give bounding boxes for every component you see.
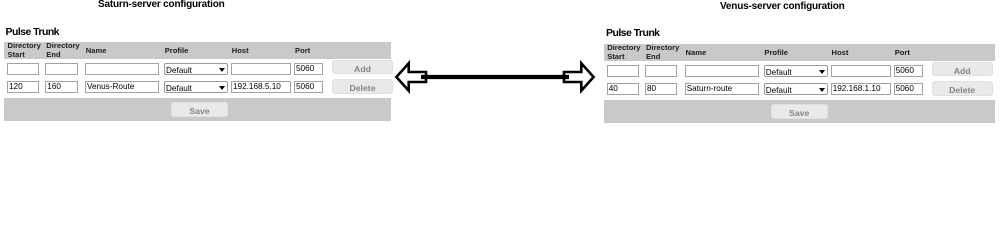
row2 select Profile: Default: [764, 83, 828, 95]
right arrowhead: [564, 63, 594, 90]
row1 input Name (empty): [685, 65, 759, 77]
Delete button: [332, 79, 393, 94]
header label Directory Start: [607, 44, 640, 61]
title: Venus-server configuration: [720, 1, 845, 12]
header label Directory End: [46, 42, 79, 59]
row2 input Directory Start: 40: [607, 83, 639, 95]
footer bar: [4, 98, 391, 122]
row1 input Directory Start (empty): [7, 63, 39, 75]
Save button: [771, 104, 828, 119]
arrow shaft: [421, 75, 569, 79]
row1 input Port: 5060: [894, 65, 923, 77]
header label Host: [831, 49, 848, 57]
header label Directory End: [646, 44, 679, 61]
header label Port: [895, 49, 910, 57]
double-headed arrow between tables: [0, 0, 1000, 158]
row1 input Directory End (empty): [45, 63, 77, 75]
row2 input Host: 192.168.1.10: [831, 83, 891, 95]
footer bar: [604, 100, 995, 124]
header bar: [4, 42, 391, 59]
row2 input Directory End: 80: [645, 83, 677, 95]
header label Host: [232, 47, 249, 55]
header label Directory Start: [8, 42, 41, 59]
Delete button: [932, 81, 993, 96]
right table: Venus-server Pulse Trunk configuration: [600, 2, 1000, 134]
header label Port: [295, 47, 310, 55]
row1 select Profile: Default: [164, 63, 228, 75]
row2 input Port: 5060: [894, 83, 923, 95]
row2 input Host: 192.168.5.10: [231, 81, 291, 93]
row2 input Directory End: 160: [45, 81, 77, 93]
Add button: [332, 60, 393, 74]
header bar: [604, 44, 995, 61]
row1 input Name (empty): [85, 63, 159, 75]
row2 input Port: 5060: [294, 81, 323, 93]
title: Saturn-server configuration: [98, 0, 225, 10]
row2 input Directory Start: 120: [7, 81, 39, 93]
header label Profile: [165, 47, 189, 55]
row1 input Directory End (empty): [645, 65, 677, 77]
Add button: [932, 62, 993, 76]
row2 select Profile: Default: [164, 81, 228, 93]
left arrowhead: [396, 63, 426, 90]
row1 input Host (empty): [231, 63, 291, 75]
heading: Pulse Trunk (right): [606, 27, 659, 39]
header label Name: [685, 49, 706, 57]
row1 select Profile: Default: [764, 65, 828, 77]
row1 input Host (empty): [831, 65, 891, 77]
row2 input Name: Saturn-route: [685, 83, 759, 95]
header label Profile: [764, 49, 788, 57]
row1 input Port: 5060: [294, 63, 323, 75]
header label Name: [86, 47, 107, 55]
row1 input Directory Start (empty): [607, 65, 639, 77]
row2 input Name: Venus-Route: [85, 81, 159, 93]
left table: Saturn-server Pulse Trunk configuration: [0, 0, 400, 132]
heading: Pulse Trunk (left): [6, 26, 59, 38]
Save button: [171, 102, 228, 117]
